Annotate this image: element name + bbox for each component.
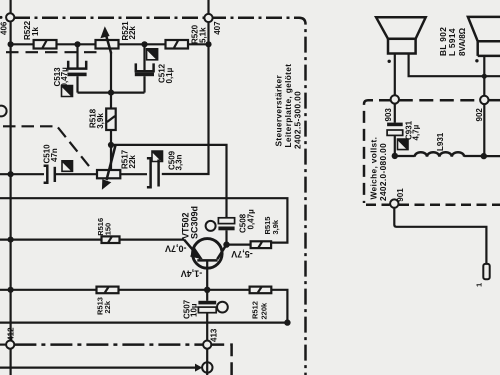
wiper wire R521 down	[110, 53, 112, 93]
junction rail emitter line	[8, 287, 14, 293]
resistor R522	[23, 20, 57, 48]
svg-text:L931: L931	[436, 132, 445, 151]
feedback wire to C508	[111, 145, 227, 218]
svg-text:901: 901	[396, 188, 405, 202]
connector circle left edge	[0, 106, 7, 117]
potentiometer arrow R521	[100, 26, 111, 53]
svg-text:407: 407	[213, 21, 222, 35]
transistor VT502	[180, 206, 226, 268]
mechanical dashed link lower	[3, 126, 91, 168]
base wire	[0, 239, 102, 241]
long wire y=322.6	[0, 322, 287, 324]
wire R513 to emitter node	[119, 289, 208, 291]
wire R517 to C509	[120, 173, 147, 175]
svg-text:-0,7V: -0,7V	[165, 243, 187, 253]
capacitor C513	[53, 44, 86, 92]
dash-dot border top and right	[14, 18, 306, 375]
speaker terminal wires	[394, 54, 396, 96]
polarity mark C513	[62, 86, 73, 97]
speaker 2 terminal	[483, 56, 485, 96]
svg-text:Weiche, vollst.: Weiche, vollst.	[369, 137, 379, 200]
wire 902 down	[483, 104, 485, 156]
svg-text:R512: R512	[251, 301, 260, 319]
svg-text:2402.0-080.00: 2402.0-080.00	[378, 143, 388, 201]
svg-text:4,7µ: 4,7µ	[411, 124, 420, 140]
junction left rail	[8, 171, 14, 177]
svg-text:0,47µ: 0,47µ	[246, 209, 255, 230]
svg-text:L 5914: L 5914	[447, 28, 457, 56]
bottom wire with arrow	[0, 364, 202, 372]
svg-text:0,47µ: 0,47µ	[60, 67, 69, 88]
mechanical dashed link upper	[6, 51, 99, 53]
wire	[188, 43, 209, 45]
wire y=174 from left	[0, 173, 44, 175]
svg-text:Leiterplatte, gelötet: Leiterplatte, gelötet	[283, 64, 293, 148]
svg-text:1: 1	[475, 283, 484, 287]
wire top bus y=44	[11, 43, 34, 45]
polarity mark C931	[398, 139, 409, 150]
speaker 2 partial	[468, 17, 500, 63]
resistor R518	[89, 93, 116, 170]
node 901	[390, 188, 405, 208]
node C513 top	[74, 41, 80, 47]
node 413	[203, 328, 218, 349]
capacitor C507	[182, 299, 216, 340]
shield dashed from 413	[211, 345, 231, 375]
junction R512 loop	[284, 319, 290, 325]
inductor L931	[395, 132, 484, 157]
svg-text:412: 412	[7, 327, 16, 341]
node 407	[204, 0, 222, 35]
svg-text:3,3n: 3,3n	[175, 154, 184, 170]
capacitor C512	[135, 44, 174, 92]
wire	[57, 43, 96, 45]
resistor R512	[250, 287, 272, 320]
svg-text:3,9k: 3,9k	[96, 113, 105, 129]
wire	[10, 349, 12, 375]
node 406	[0, 0, 14, 35]
speaker BL902	[376, 17, 467, 63]
bottom connector circle	[202, 362, 212, 372]
node C512 top	[141, 41, 147, 47]
svg-text:-1,4V: -1,4V	[181, 269, 203, 279]
marker circle C508	[206, 221, 216, 231]
svg-text:8VA/8Ω: 8VA/8Ω	[458, 27, 467, 56]
svg-text:10µ: 10µ	[190, 303, 199, 317]
junction wiper/R518	[108, 90, 114, 96]
capacitor C508	[218, 209, 255, 245]
junction rail base	[8, 237, 14, 243]
left rail wire	[10, 21, 12, 340]
wire y=290 left part	[0, 289, 97, 291]
wire R516 to base	[120, 239, 185, 241]
emitter wire	[206, 260, 208, 300]
wire emitter node to R512	[207, 289, 249, 291]
marker circle C507	[217, 302, 228, 313]
svg-text:220k: 220k	[259, 302, 268, 320]
capacitor C510	[43, 144, 98, 183]
resistor R520	[166, 24, 208, 48]
resistor R515	[227, 217, 280, 249]
svg-text:3,9k: 3,9k	[271, 219, 280, 234]
svg-text:Steuerverstärker: Steuerverstärker	[274, 75, 284, 147]
svg-text:406: 406	[0, 21, 9, 35]
wire C513 to junction	[78, 91, 145, 93]
resistor R521	[96, 21, 138, 49]
dash-dot line 412 to 413	[0, 344, 203, 346]
junction speaker2 wire	[482, 74, 487, 79]
emitter node	[204, 287, 210, 293]
wire 413 down	[206, 349, 208, 375]
junction rail R522	[8, 41, 14, 47]
svg-text:902: 902	[475, 108, 484, 122]
svg-text:22k: 22k	[128, 155, 137, 169]
wire	[119, 43, 166, 45]
wire R512 loop	[271, 290, 287, 323]
junction C931 / L931	[392, 153, 398, 159]
resistor R516	[96, 218, 119, 243]
junction 902/L931	[481, 153, 487, 159]
crossover dashed box	[364, 100, 500, 203]
svg-text:150: 150	[104, 223, 113, 236]
potentiometer arrow R517	[102, 145, 116, 190]
svg-text:47n: 47n	[50, 148, 59, 162]
resistor R517	[97, 149, 137, 178]
wire to right edge	[484, 155, 500, 157]
capacitor C509	[147, 150, 184, 187]
node 412	[6, 327, 15, 349]
long wire y=198	[0, 198, 287, 242]
polarity mark C509	[152, 151, 163, 162]
rail 407 down and left turn to C509	[162, 22, 209, 174]
svg-text:5,1k: 5,1k	[199, 27, 208, 43]
svg-text:0,1µ: 0,1µ	[165, 67, 174, 83]
PCB caption block	[274, 64, 303, 149]
terminal box 1	[475, 264, 490, 287]
svg-text:22k: 22k	[103, 300, 112, 313]
svg-text:413: 413	[209, 328, 218, 342]
svg-text:903: 903	[384, 108, 393, 122]
node 902	[475, 96, 489, 122]
polarity mark C512	[147, 49, 158, 60]
node 903	[384, 95, 399, 121]
svg-text:1k: 1k	[31, 27, 40, 36]
polarity mark C510	[62, 161, 73, 172]
svg-text:SC309d: SC309d	[189, 206, 199, 239]
svg-text:22k: 22k	[128, 26, 137, 40]
svg-text:2402.5-300.00: 2402.5-300.00	[293, 91, 303, 149]
wire 901 to terminal 1	[394, 208, 486, 264]
collector node	[223, 241, 229, 247]
capacitor C931	[387, 103, 420, 156]
junction R518 / feedback	[108, 142, 114, 148]
node 407 junction	[205, 41, 211, 47]
thick dashed line y=205	[366, 204, 500, 207]
crossover caption	[369, 137, 389, 201]
svg-text:-5,7V: -5,7V	[231, 249, 253, 259]
resistor R513	[96, 287, 119, 315]
